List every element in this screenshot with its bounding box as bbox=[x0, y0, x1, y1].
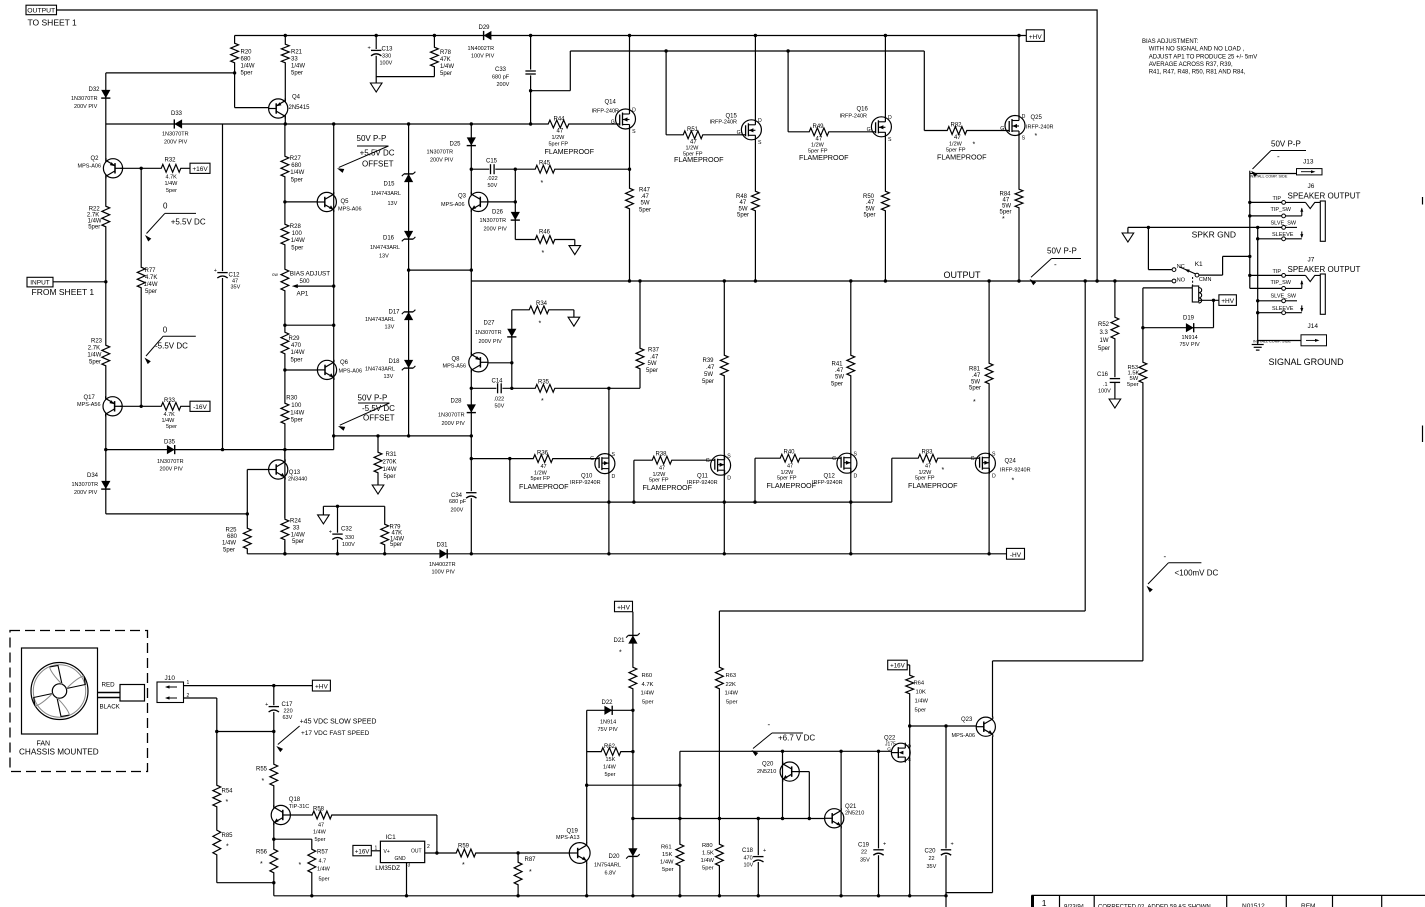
svg-text:+: + bbox=[951, 842, 954, 848]
mosfet Q24 IRFP-9240R bbox=[971, 452, 1031, 485]
transistor Q13 bbox=[269, 459, 308, 482]
annotation: 50V P-P +5.5V DC OFFSET bbox=[337, 134, 395, 173]
svg-text:FLAMEPROOF: FLAMEPROOF bbox=[519, 482, 569, 491]
resistor R37 bbox=[635, 347, 660, 374]
svg-text:OUTPUT: OUTPUT bbox=[27, 7, 55, 14]
capacitor C12 bbox=[214, 268, 241, 291]
svg-text:C17: C17 bbox=[282, 702, 294, 708]
svg-text:200V PIV: 200V PIV bbox=[160, 467, 184, 473]
wire: +HV rail bbox=[235, 35, 1027, 37]
node +HV box (relay) bbox=[1219, 295, 1237, 306]
jack J6 body bbox=[1286, 201, 1326, 241]
svg-text:*: * bbox=[299, 862, 302, 869]
diode D29 bbox=[468, 25, 495, 60]
svg-text:*: * bbox=[541, 398, 544, 405]
wire: C32/R79 row bbox=[323, 505, 384, 554]
svg-text:5per: 5per bbox=[440, 71, 452, 77]
title block bbox=[1032, 895, 1425, 907]
svg-text:47: 47 bbox=[659, 466, 665, 472]
svg-text:C14: C14 bbox=[492, 379, 504, 385]
svg-text:-5.5V DC: -5.5V DC bbox=[155, 342, 188, 351]
resistor R60 bbox=[628, 666, 655, 705]
svg-text:R62: R62 bbox=[604, 744, 616, 750]
zener diode D21 bbox=[614, 633, 640, 656]
svg-text:SIGNAL GROUND: SIGNAL GROUND bbox=[1269, 357, 1345, 367]
svg-text:5per: 5per bbox=[646, 368, 658, 374]
annotation: 50V P-P -5.5V DC OFFSET bbox=[338, 394, 395, 431]
resistor R62 bbox=[600, 744, 622, 778]
wire: OUTPUT line to sheet 1 bbox=[57, 10, 1098, 281]
svg-text:1N3070TR: 1N3070TR bbox=[71, 96, 98, 102]
node INPUT box bbox=[27, 277, 94, 297]
wire: R40 gate feed bbox=[755, 458, 837, 502]
svg-text:.47: .47 bbox=[641, 194, 650, 200]
svg-text:Q13: Q13 bbox=[289, 470, 301, 476]
ground (C16) bbox=[1109, 382, 1121, 408]
wire: Q22 D/S column bbox=[908, 724, 911, 896]
svg-text:10V: 10V bbox=[744, 863, 754, 869]
svg-text:R21: R21 bbox=[291, 50, 303, 56]
wire: R64 branch bbox=[907, 665, 910, 726]
svg-text:1/4W: 1/4W bbox=[317, 867, 331, 873]
svg-text:ADJUST AP1 TO PRODUCE 25 +/- 5: ADJUST AP1 TO PRODUCE 25 +/- 5mV bbox=[1149, 54, 1258, 60]
wire: row y=818.5 bbox=[633, 817, 825, 820]
junction dots on OUTPUT rail bbox=[628, 279, 1117, 282]
svg-text:OUT: OUT bbox=[411, 848, 422, 854]
svg-text:200V PIV: 200V PIV bbox=[442, 421, 466, 427]
zener diode D20 bbox=[594, 848, 640, 876]
svg-text:330: 330 bbox=[345, 535, 354, 541]
wire: Q21 collector/emitter column bbox=[840, 751, 842, 896]
resistor R32 bbox=[160, 158, 182, 195]
svg-text:13V: 13V bbox=[379, 254, 389, 260]
svg-text:D32: D32 bbox=[89, 87, 101, 93]
svg-text:100V: 100V bbox=[380, 61, 393, 67]
svg-text:R57: R57 bbox=[317, 850, 329, 856]
transistor Q17 bbox=[77, 395, 122, 416]
svg-text:C32: C32 bbox=[341, 527, 353, 533]
resistor R78 bbox=[430, 46, 455, 77]
svg-text:100V: 100V bbox=[342, 542, 355, 548]
svg-text:D: D bbox=[632, 107, 636, 113]
svg-text:IRFP-9240R: IRFP-9240R bbox=[570, 480, 601, 486]
resistor R52 bbox=[1098, 316, 1120, 352]
svg-text:5per: 5per bbox=[726, 699, 738, 705]
wire: C13 / R78 branch bbox=[376, 36, 434, 84]
wire: Q6 base row bbox=[285, 369, 318, 371]
resistor R20 bbox=[230, 42, 255, 77]
svg-text:680: 680 bbox=[227, 534, 238, 540]
resistor R27 bbox=[280, 155, 305, 183]
jack J6 contacts bbox=[1282, 201, 1286, 241]
wire: R20 branch bbox=[106, 36, 268, 108]
svg-text:1/4W: 1/4W bbox=[725, 691, 739, 697]
svg-text:.022: .022 bbox=[494, 397, 505, 403]
fan wire stub bbox=[98, 682, 145, 711]
svg-text:G: G bbox=[611, 119, 615, 125]
svg-text:2N5210: 2N5210 bbox=[757, 769, 776, 775]
svg-text:680: 680 bbox=[291, 163, 302, 169]
svg-text:1/4W: 1/4W bbox=[701, 858, 715, 864]
svg-text:R27: R27 bbox=[290, 156, 302, 162]
svg-text:5per: 5per bbox=[384, 474, 396, 480]
junction dots on -HV rail bbox=[283, 552, 991, 555]
svg-text:1/4W: 1/4W bbox=[87, 353, 101, 359]
svg-text:Q10: Q10 bbox=[581, 474, 593, 480]
svg-text:1/4W: 1/4W bbox=[290, 410, 304, 416]
svg-text:R80: R80 bbox=[702, 843, 713, 849]
svg-text:Q12: Q12 bbox=[824, 474, 836, 480]
svg-text:5per: 5per bbox=[315, 837, 326, 843]
svg-text:1/4W: 1/4W bbox=[222, 541, 236, 547]
svg-text:J7: J7 bbox=[1308, 257, 1315, 264]
svg-text:1N3070TR: 1N3070TR bbox=[72, 482, 99, 488]
resistor R56 bbox=[256, 848, 279, 874]
svg-text:R36: R36 bbox=[537, 451, 549, 457]
svg-text:33: 33 bbox=[293, 525, 300, 531]
resistor R38 bbox=[643, 452, 693, 493]
wire: J7 TIP row bbox=[1250, 269, 1282, 276]
wire: pot bottom to Q5 column bbox=[285, 324, 336, 327]
resistor R30 bbox=[280, 396, 305, 426]
wire: J6 SLEEVE row bbox=[1258, 232, 1294, 239]
wire: row y=726 (Q23 base) bbox=[910, 724, 977, 727]
wire: R63/R80 column bbox=[718, 611, 721, 896]
svg-text:47: 47 bbox=[318, 823, 324, 829]
svg-text:5per: 5per bbox=[145, 289, 157, 295]
resistor R48 bbox=[736, 190, 760, 219]
annotation: 50V P-P - (speaker) bbox=[1251, 140, 1306, 178]
svg-text:1/4W: 1/4W bbox=[291, 350, 305, 356]
svg-text:OFFSET: OFFSET bbox=[362, 160, 394, 169]
wire: R61 column bbox=[679, 751, 681, 896]
svg-text:R58: R58 bbox=[313, 807, 325, 813]
wire: R31 branch bbox=[377, 436, 379, 485]
resistor R50 bbox=[863, 190, 890, 219]
svg-text:+16V: +16V bbox=[890, 663, 905, 670]
svg-text:1N914: 1N914 bbox=[600, 720, 616, 726]
svg-text:1/4W: 1/4W bbox=[291, 238, 305, 244]
svg-text:R64: R64 bbox=[914, 681, 925, 687]
svg-text:200V PIV: 200V PIV bbox=[74, 490, 98, 496]
wire: C15/R45 row bbox=[471, 168, 629, 171]
transistor Q21 bbox=[825, 804, 865, 828]
svg-text:Q16: Q16 bbox=[857, 107, 869, 113]
svg-text:Q23: Q23 bbox=[961, 717, 973, 723]
svg-text:1W: 1W bbox=[1100, 338, 1109, 344]
svg-text:*: * bbox=[462, 862, 465, 869]
resistor R41 bbox=[831, 354, 856, 387]
resistor R40 bbox=[767, 450, 817, 490]
diode D35 bbox=[157, 440, 184, 473]
sheet border tick (right, upper) bbox=[1422, 197, 1424, 205]
svg-text:D: D bbox=[727, 475, 731, 481]
svg-text:D: D bbox=[854, 473, 858, 479]
svg-text:22K: 22K bbox=[726, 682, 736, 688]
capacitor C18 bbox=[742, 848, 766, 869]
zener diode D16 bbox=[370, 231, 415, 260]
diode D32 bbox=[71, 87, 110, 110]
svg-text:1N3070TR: 1N3070TR bbox=[475, 330, 502, 336]
capacitor C34 bbox=[449, 491, 478, 513]
svg-text:IRFP-240R: IRFP-240R bbox=[840, 114, 868, 120]
svg-text:100V PIV: 100V PIV bbox=[432, 570, 456, 576]
resistor R46 bbox=[534, 230, 556, 258]
svg-text:D25: D25 bbox=[450, 142, 462, 148]
svg-text:NO: NO bbox=[1177, 278, 1186, 284]
resistor R58 bbox=[311, 807, 333, 844]
svg-text:R54: R54 bbox=[222, 789, 234, 795]
svg-text:-16V: -16V bbox=[193, 404, 207, 411]
svg-text:R63: R63 bbox=[726, 673, 737, 679]
resistor R25 bbox=[222, 527, 252, 553]
svg-text:5per: 5per bbox=[605, 772, 616, 778]
svg-text:Q17: Q17 bbox=[84, 395, 96, 401]
svg-text:*: * bbox=[1035, 133, 1038, 140]
svg-text:0: 0 bbox=[163, 202, 168, 211]
ground (R46) bbox=[569, 240, 581, 255]
resistor R84 bbox=[1000, 188, 1024, 223]
wire: P-channel gate row (Q10) bbox=[471, 457, 595, 460]
svg-text:1N3070TR: 1N3070TR bbox=[438, 413, 465, 419]
svg-text:R48: R48 bbox=[736, 194, 748, 200]
svg-text:5W: 5W bbox=[739, 206, 748, 212]
diode D22 bbox=[598, 700, 619, 733]
transistor Q3 bbox=[441, 192, 488, 212]
capacitor C32 bbox=[329, 527, 355, 549]
resistor R61 bbox=[660, 843, 685, 873]
svg-text:15K: 15K bbox=[606, 757, 616, 763]
wire: Q16 gate feed bbox=[788, 51, 871, 132]
svg-text:22: 22 bbox=[929, 856, 935, 862]
svg-text:Q4: Q4 bbox=[292, 95, 301, 101]
svg-text:S: S bbox=[1022, 136, 1026, 142]
svg-text:5per: 5per bbox=[831, 381, 843, 387]
mosfet Q14 IRFP-240R bbox=[592, 100, 637, 136]
capacitor C33 bbox=[492, 67, 537, 88]
svg-text:C19: C19 bbox=[858, 843, 870, 849]
svg-text:C15: C15 bbox=[486, 159, 498, 165]
svg-text:AP1: AP1 bbox=[297, 291, 309, 298]
node +HV box (top right) bbox=[1026, 30, 1044, 42]
annotation: +45 VDC SLOW SPEED bbox=[276, 719, 376, 753]
svg-text:INSTALL COMP. SIDE: INSTALL COMP. SIDE bbox=[1253, 339, 1291, 343]
svg-text:R87: R87 bbox=[525, 857, 537, 863]
wire: bottom rail bbox=[274, 894, 946, 897]
svg-text:1/4W: 1/4W bbox=[165, 181, 179, 187]
svg-text:6.8V: 6.8V bbox=[605, 871, 617, 877]
svg-text:CMN: CMN bbox=[1199, 277, 1212, 283]
svg-text:D17: D17 bbox=[389, 310, 401, 316]
connector J10 bbox=[157, 675, 190, 703]
svg-text:*: * bbox=[1012, 478, 1015, 485]
svg-text:15K: 15K bbox=[662, 852, 672, 858]
svg-text:SPEAKER OUTPUT: SPEAKER OUTPUT bbox=[1288, 192, 1361, 201]
svg-text:MPS-A06: MPS-A06 bbox=[339, 369, 363, 375]
svg-text:5per: 5per bbox=[223, 547, 235, 553]
wire: R83 gate feed bbox=[892, 458, 976, 502]
svg-text:+: + bbox=[265, 702, 268, 708]
fan rotor bbox=[31, 663, 88, 720]
capacitor C17 bbox=[265, 702, 293, 721]
fan labels bbox=[19, 741, 99, 757]
svg-text:OUTPUT: OUTPUT bbox=[944, 270, 982, 280]
svg-text:*: * bbox=[973, 142, 976, 149]
mosfet Q10 IRFP-9240R bbox=[570, 452, 616, 486]
svg-text:13V: 13V bbox=[384, 374, 394, 380]
svg-text:R29: R29 bbox=[289, 336, 301, 342]
wire: P gate bus y=502 bbox=[510, 459, 892, 504]
svg-text:J14: J14 bbox=[1308, 323, 1319, 330]
svg-text:<100mV DC: <100mV DC bbox=[1175, 569, 1219, 578]
svg-text:5per: 5per bbox=[702, 379, 714, 385]
svg-text:TO SHEET 1: TO SHEET 1 bbox=[28, 18, 78, 28]
svg-text:D18: D18 bbox=[389, 359, 401, 365]
svg-text:680 pF: 680 pF bbox=[492, 75, 510, 81]
svg-text:REM: REM bbox=[1301, 903, 1315, 907]
wire: Q24 column (R81) bbox=[988, 281, 990, 554]
wire: D16 to D25 column link bbox=[407, 268, 471, 271]
svg-text:1/4W: 1/4W bbox=[313, 830, 327, 836]
svg-text:FLAMEPROOF: FLAMEPROOF bbox=[908, 481, 958, 490]
svg-text:D: D bbox=[888, 115, 892, 121]
svg-text:R40: R40 bbox=[784, 450, 796, 456]
svg-text:+HV: +HV bbox=[1029, 34, 1042, 41]
node +HV box (fan) bbox=[312, 680, 330, 691]
svg-text:5per: 5per bbox=[166, 188, 177, 194]
svg-text:*: * bbox=[226, 799, 229, 806]
svg-text:5per: 5per bbox=[639, 207, 651, 213]
svg-text:1N4743ARL: 1N4743ARL bbox=[365, 317, 395, 323]
wire: C17/R55/Q18/R56 column bbox=[273, 686, 275, 896]
svg-text:1.5K: 1.5K bbox=[702, 851, 714, 857]
resistor R29 bbox=[280, 331, 305, 363]
zener diode D17 bbox=[365, 310, 415, 331]
svg-text:2N3440: 2N3440 bbox=[288, 477, 307, 483]
resistor R22 bbox=[87, 205, 111, 231]
svg-text:35V: 35V bbox=[927, 864, 937, 870]
svg-text:5per: 5per bbox=[89, 360, 101, 366]
transistor Q2 bbox=[78, 156, 123, 178]
svg-text:1N4743ARL: 1N4743ARL bbox=[365, 367, 395, 373]
resistor R34 bbox=[528, 301, 550, 328]
svg-text:INSTALL COMP. SIDE: INSTALL COMP. SIDE bbox=[1250, 174, 1288, 178]
resistor R77 bbox=[136, 266, 158, 295]
svg-text:1/4W: 1/4W bbox=[291, 532, 305, 538]
svg-text:5per: 5per bbox=[241, 71, 253, 77]
wire: Q5 base row bbox=[285, 201, 317, 203]
wire: Q13 base / R25 branch bbox=[246, 470, 269, 554]
zener diode D15 bbox=[371, 172, 415, 207]
wire: IC1 GND pin bbox=[406, 863, 408, 896]
ground (R31) bbox=[372, 485, 384, 494]
svg-text:R85: R85 bbox=[222, 833, 234, 839]
svg-text:5W: 5W bbox=[835, 375, 844, 381]
svg-text:.022: .022 bbox=[487, 176, 498, 182]
potentiometer AP1 (BIAS ADJUST 500) bbox=[272, 268, 335, 298]
wire: SPKR GND line bbox=[1128, 226, 1282, 229]
annotation: <100mV DC bbox=[1147, 552, 1219, 592]
resistor R63 bbox=[715, 666, 739, 705]
svg-text:+6.7 V DC: +6.7 V DC bbox=[778, 734, 815, 743]
svg-text:100: 100 bbox=[291, 403, 302, 409]
svg-text:V+: V+ bbox=[384, 849, 390, 855]
svg-text:-: - bbox=[1164, 552, 1167, 561]
svg-text:5per: 5per bbox=[642, 699, 654, 705]
svg-text:5W: 5W bbox=[641, 201, 650, 207]
wire: OUTPUT to lower section column bbox=[719, 281, 1085, 611]
svg-text:D20: D20 bbox=[609, 854, 621, 860]
resistor R83 bbox=[908, 450, 958, 490]
svg-text:1/4W: 1/4W bbox=[290, 170, 304, 176]
svg-text:1: 1 bbox=[1042, 898, 1047, 907]
svg-text:680: 680 bbox=[241, 57, 252, 63]
wire: -HV rail bbox=[247, 553, 1006, 555]
wire: Q8 base / D27 branch bbox=[488, 310, 574, 390]
svg-text:R55: R55 bbox=[256, 767, 268, 773]
svg-text:G: G bbox=[971, 456, 975, 462]
node +16V box (IC1) bbox=[353, 845, 381, 855]
svg-text:BLACK: BLACK bbox=[100, 704, 121, 711]
wire: R62 row bbox=[587, 750, 635, 753]
svg-text:100V: 100V bbox=[1098, 389, 1111, 395]
svg-text:R20: R20 bbox=[241, 50, 253, 56]
svg-text:R81: R81 bbox=[969, 367, 981, 373]
svg-text:IRFP-240R: IRFP-240R bbox=[710, 120, 738, 126]
wire: left column (Q2/Q17) bbox=[104, 124, 247, 514]
svg-text:75V PIV: 75V PIV bbox=[1180, 342, 1201, 348]
wire: Q19 collector riser bbox=[585, 784, 588, 843]
wire: Q18 base / R58 row bbox=[290, 815, 437, 853]
svg-text:D26: D26 bbox=[492, 210, 504, 216]
svg-text:Q25: Q25 bbox=[1031, 115, 1043, 121]
wire: D21/R60/D20 column bbox=[631, 612, 634, 896]
ground (R34) bbox=[568, 310, 580, 326]
resistor R82 bbox=[937, 123, 987, 162]
svg-text:S: S bbox=[854, 452, 858, 458]
transistor Q23 bbox=[952, 717, 996, 739]
svg-text:+: + bbox=[329, 529, 332, 535]
resistor R64 bbox=[905, 674, 929, 714]
svg-text:5per: 5per bbox=[166, 424, 177, 430]
svg-text:R82: R82 bbox=[951, 123, 963, 129]
transistor Q18 bbox=[271, 797, 309, 825]
diode D19 bbox=[1180, 316, 1201, 349]
svg-text:-5.5V DC: -5.5V DC bbox=[362, 404, 395, 413]
annotation: BIAS ADJUSTMENT note bbox=[1142, 39, 1257, 76]
annotation: 0 / -5.5V DC bbox=[145, 326, 196, 365]
wire: D32 column bbox=[105, 73, 107, 124]
svg-text:R78: R78 bbox=[440, 50, 452, 56]
svg-text:+16V: +16V bbox=[355, 849, 370, 856]
svg-text:2: 2 bbox=[427, 844, 430, 850]
svg-text:D27: D27 bbox=[484, 321, 496, 327]
svg-text:5per: 5per bbox=[291, 357, 303, 363]
wire: R37 column bbox=[639, 281, 641, 388]
svg-text:2N5210: 2N5210 bbox=[845, 811, 864, 817]
svg-text:cw: cw bbox=[272, 273, 278, 278]
svg-text:CHASSIS MOUNTED: CHASSIS MOUNTED bbox=[19, 748, 99, 757]
svg-text:R28: R28 bbox=[290, 224, 302, 230]
resistor R49 bbox=[799, 124, 849, 162]
svg-text:D29: D29 bbox=[479, 25, 491, 31]
mosfet Q12 IRFP-9240R bbox=[812, 452, 858, 486]
sheet border tick (right, lower) bbox=[1422, 426, 1424, 443]
svg-text:+: + bbox=[214, 268, 217, 274]
svg-text:50V: 50V bbox=[495, 404, 505, 410]
svg-text:1/4W: 1/4W bbox=[915, 699, 929, 705]
node +16V box (R64) bbox=[888, 660, 908, 670]
